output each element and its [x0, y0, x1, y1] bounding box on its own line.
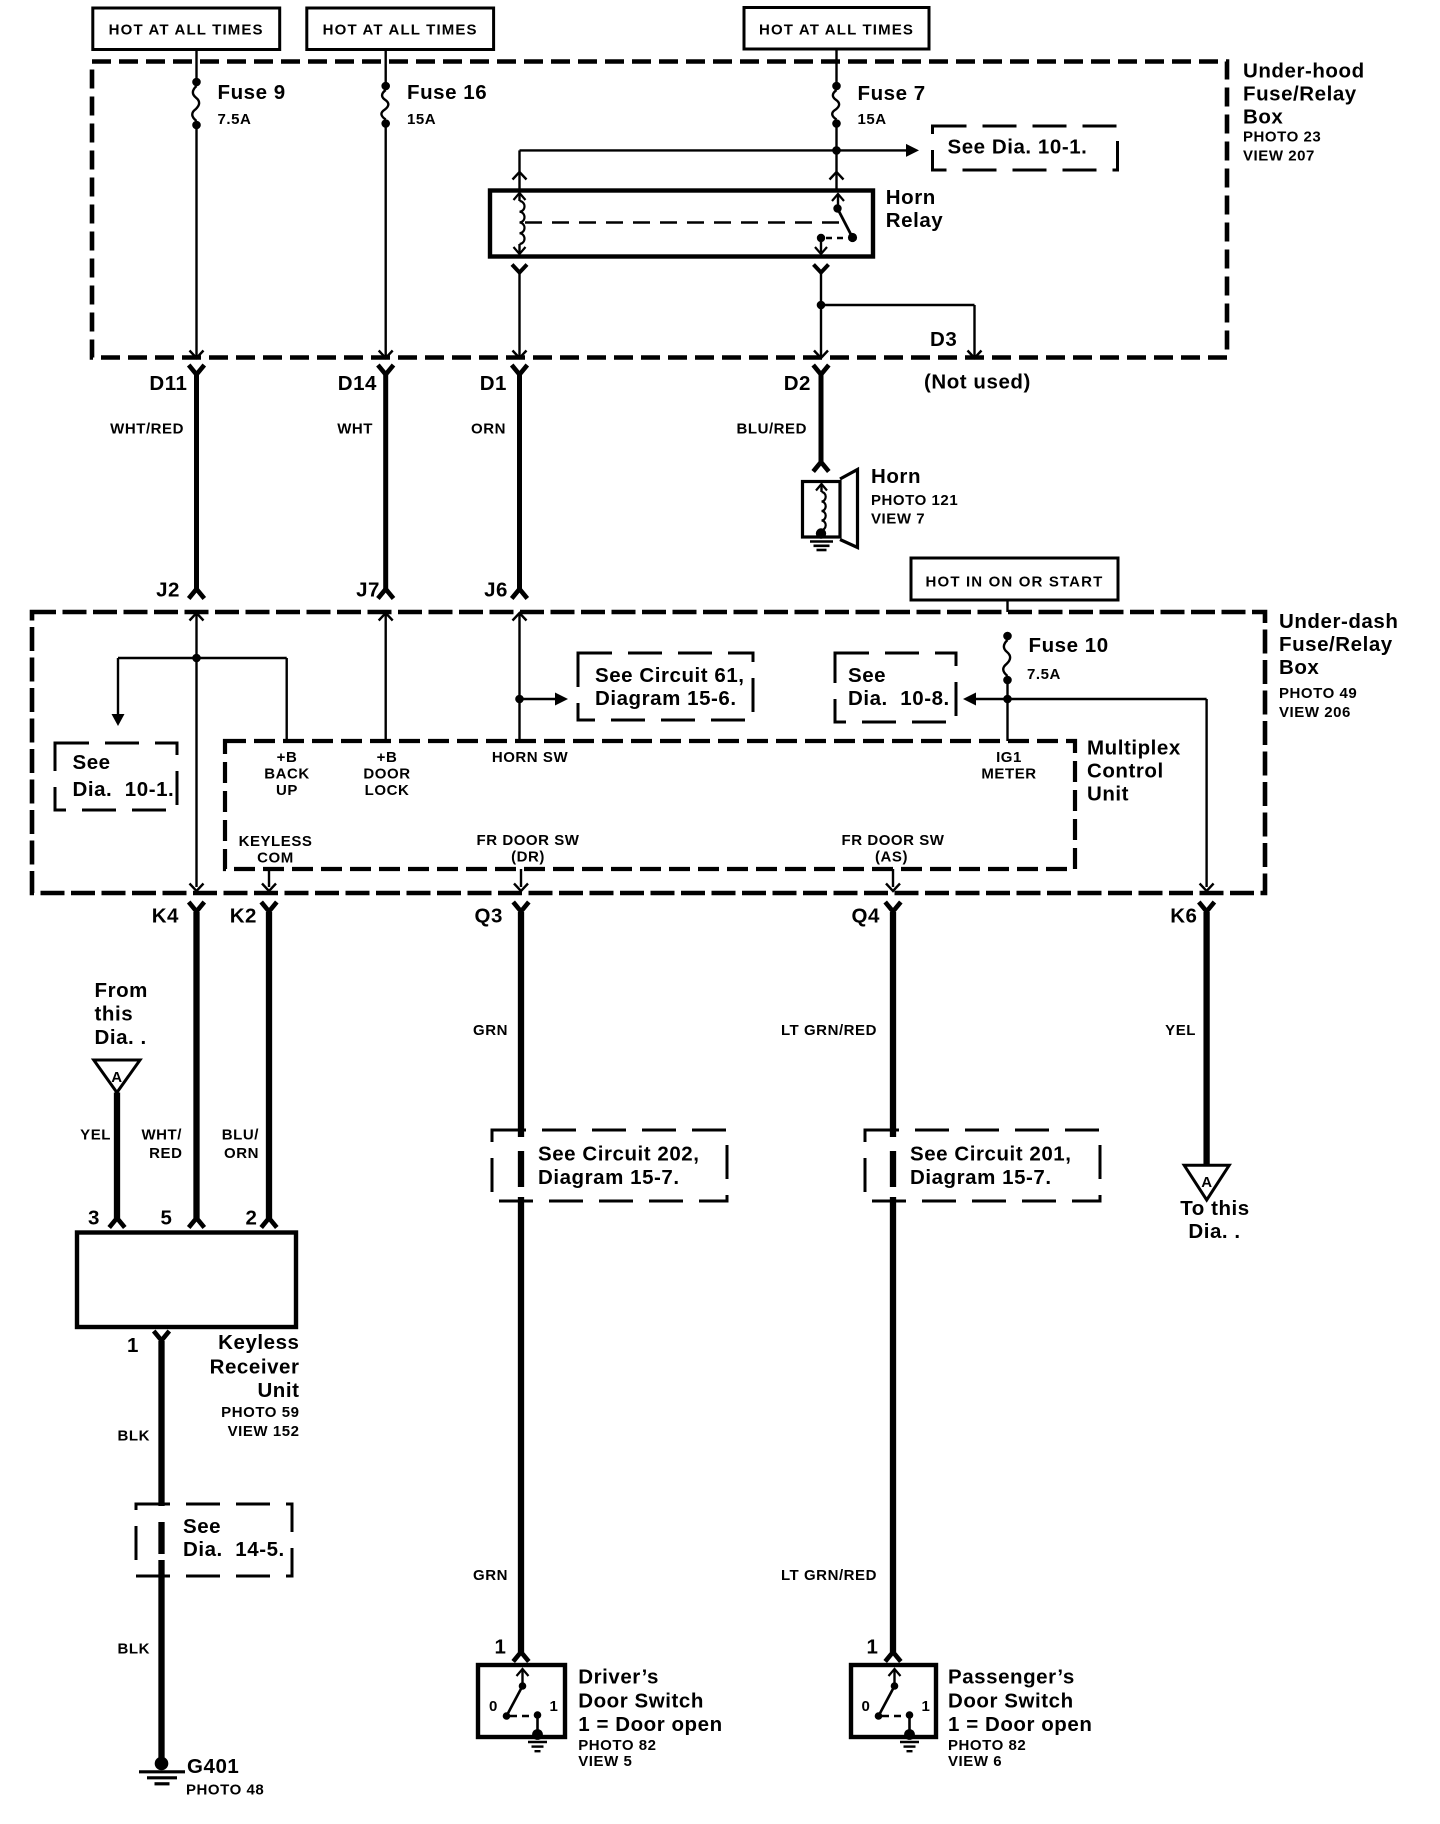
driver door switch box	[478, 1665, 565, 1737]
connector J7	[378, 589, 394, 599]
driver switch ground bars	[528, 1741, 547, 1743]
see reference box: See Circuit 201, Diagram 15-7.	[865, 1130, 1100, 1201]
keyless receiver unit box	[77, 1233, 296, 1328]
svg-text:METER: METER	[981, 766, 1036, 783]
arrow into D14	[379, 351, 393, 359]
horn ground dot	[816, 528, 826, 538]
svg-text:J2: J2	[156, 579, 180, 602]
svg-text:Fuse 16: Fuse 16	[407, 81, 487, 104]
svg-text:HOT AT ALL TIMES: HOT AT ALL TIMES	[109, 22, 264, 39]
driver switch blade dot	[503, 1712, 511, 1720]
wire D1-J6 (ORN)	[517, 372, 522, 590]
svg-text:K2: K2	[230, 905, 257, 928]
arrow Q4 exit	[886, 884, 900, 892]
svg-text:(DR): (DR)	[511, 849, 545, 866]
connector J6	[512, 589, 528, 599]
relay coil arrow bottom	[518, 244, 520, 254]
wire J2 branch horizontal	[118, 657, 287, 659]
svg-text:Fuse/Relay: Fuse/Relay	[1243, 83, 1357, 106]
wire to See Dia. 10-1 (horizontal) and relay coil feed	[520, 149, 907, 151]
fuse F10 element	[1003, 632, 1012, 641]
wire branch to +B BACK UP	[286, 658, 288, 741]
arrow into D2	[814, 351, 828, 359]
svg-text:Dia. 10-1.: Dia. 10-1.	[73, 778, 175, 801]
see reference box: See Circuit 202, Diagram 15-7.	[492, 1130, 727, 1201]
driver switch dashed contact	[510, 1715, 533, 1717]
wire A to keyless pin 3 (YEL)	[114, 1093, 120, 1219]
horn ground bars	[810, 540, 833, 543]
arrow K2 exit	[262, 884, 276, 892]
svg-text:PHOTO 49: PHOTO 49	[1279, 685, 1357, 702]
svg-text:Door Switch: Door Switch	[578, 1690, 704, 1713]
pin stub FR DOOR SW DR to Q3	[520, 869, 522, 887]
fuse F16 element	[381, 82, 390, 91]
relay switch dashed to output	[826, 237, 848, 239]
arrow Q3 exit	[514, 884, 528, 892]
svg-text:D11: D11	[149, 372, 187, 395]
passenger switch pivot dot	[891, 1682, 899, 1690]
connector D11	[189, 365, 205, 375]
connector chevron relay coil top	[513, 172, 527, 180]
wire J2 to K4	[195, 658, 197, 887]
passenger switch dashed contact	[882, 1715, 905, 1717]
relay switch pivot dot	[833, 204, 841, 212]
wire K4 to keyless pin 5 (WHT/RED)	[193, 912, 199, 1218]
driver switch ground dot	[532, 1729, 543, 1740]
svg-text:VIEW 206: VIEW 206	[1279, 704, 1351, 721]
relay switch blade dot	[848, 233, 857, 242]
wire HOT-IN-ON feed to Fuse 10	[1006, 600, 1008, 612]
ground G401 symbol	[155, 1757, 169, 1771]
wire BLK through see box (dash)	[158, 1522, 164, 1554]
svg-text:BLU/: BLU/	[222, 1127, 259, 1144]
connector chevron relay switch top	[830, 172, 844, 180]
wire BLK lower to G401	[158, 1560, 164, 1760]
svg-text:A: A	[1201, 1174, 1212, 1191]
connector chevron below relay coil (D1 feed)	[512, 265, 527, 273]
svg-text:Relay: Relay	[886, 209, 944, 232]
relay internal dashed link	[525, 221, 843, 223]
svg-text:J6: J6	[484, 579, 508, 602]
connector Q4	[885, 902, 901, 912]
wire K2 to keyless pin 2 (BLU/ORN)	[266, 912, 272, 1218]
arrow to See Dia. 10-8	[963, 693, 976, 706]
svg-text:RED: RED	[149, 1145, 182, 1162]
wire D2-horn (BLU/RED)	[819, 372, 824, 462]
connector K4	[189, 902, 205, 912]
passenger switch blade	[879, 1686, 895, 1716]
svg-text:FR DOOR SW: FR DOOR SW	[842, 832, 945, 849]
svg-text:1: 1	[867, 1636, 879, 1659]
svg-text:3: 3	[88, 1207, 100, 1230]
passenger switch blade dot	[875, 1712, 883, 1720]
svg-text:VIEW 207: VIEW 207	[1243, 148, 1315, 165]
arrow to See Dia. 10-1	[906, 144, 919, 157]
see reference box: See Circuit 61, Diagram 15-6.	[578, 653, 753, 720]
wire Q4 through see box (dash)	[890, 1151, 896, 1187]
svg-text:Passenger’s: Passenger’s	[948, 1666, 1075, 1689]
svg-text:5: 5	[161, 1207, 173, 1230]
wire Q4 (LT GRN/RED) upper	[890, 912, 896, 1137]
svg-text:1: 1	[550, 1698, 559, 1715]
svg-text:See: See	[183, 1515, 221, 1538]
svg-text:7.5A: 7.5A	[1027, 666, 1061, 683]
svg-text:See: See	[848, 664, 886, 687]
horn cone	[840, 470, 858, 548]
wire F9 to D11	[195, 125, 197, 356]
passenger switch ground bars	[900, 1741, 919, 1743]
horn body box	[803, 482, 841, 538]
wire K6 (YEL)	[1203, 912, 1209, 1165]
svg-text:D14: D14	[338, 372, 377, 395]
arrow J7 into under-dash	[379, 613, 393, 621]
svg-text:Box: Box	[1279, 656, 1319, 679]
passenger switch contact drop	[908, 1715, 911, 1731]
driver switch arrow	[517, 1669, 529, 1676]
connector J2	[189, 589, 205, 599]
driver switch blade	[507, 1686, 523, 1716]
see reference box: See Dia. 10-1. (left)	[55, 743, 177, 810]
svg-text:Control: Control	[1087, 760, 1164, 783]
svg-text:VIEW 152: VIEW 152	[228, 1423, 300, 1440]
connector K2	[261, 902, 277, 912]
driver switch pivot dot	[519, 1682, 527, 1690]
svg-text:BACK: BACK	[264, 766, 310, 783]
svg-text:See Circuit 201,: See Circuit 201,	[910, 1143, 1072, 1166]
relay switch common arrow	[832, 194, 844, 201]
svg-text:Dia. .: Dia. .	[1188, 1220, 1240, 1243]
svg-text:Q3: Q3	[475, 905, 503, 928]
keyless pin 2 connector	[261, 1218, 277, 1228]
see reference box: See Dia. 10-1.	[933, 126, 1118, 170]
inter-diagram connector A (from)	[94, 1060, 140, 1093]
junction dot J2 branch	[192, 654, 201, 663]
junction dot F10 branch	[1003, 695, 1012, 704]
svg-text:+B: +B	[377, 749, 398, 766]
svg-text:COM: COM	[257, 850, 294, 867]
power tag box HOT AT ALL TIMES (middle)	[307, 8, 494, 50]
svg-text:(AS): (AS)	[875, 849, 908, 866]
arrow to See Dia. 10-1 (left)	[112, 714, 125, 726]
wire branch to See Dia. 10-1 (left)	[117, 658, 119, 714]
svg-text:Q4: Q4	[852, 905, 880, 928]
wire F16 to D14	[385, 124, 387, 357]
multiplex control unit box (dashed)	[225, 741, 1075, 869]
svg-text:ORN: ORN	[224, 1145, 259, 1162]
svg-text:FR DOOR SW: FR DOOR SW	[477, 832, 580, 849]
svg-text:See: See	[73, 751, 111, 774]
driver switch contact drop	[536, 1715, 539, 1731]
svg-text:Horn: Horn	[886, 186, 936, 209]
svg-text:BLK: BLK	[118, 1641, 150, 1658]
arrow into D1	[513, 351, 527, 359]
svg-text:WHT/: WHT/	[141, 1127, 182, 1144]
wire D11-J2 (WHT/RED)	[194, 372, 199, 590]
svg-text:VIEW 7: VIEW 7	[871, 511, 925, 528]
svg-text:Dia. .: Dia. .	[95, 1026, 147, 1049]
wire F7 down to horn relay switch	[835, 124, 837, 190]
relay coil arrow top	[514, 193, 526, 200]
fuse F9 wire upper	[195, 62, 197, 82]
svg-text:UP: UP	[276, 782, 298, 799]
svg-text:YEL: YEL	[80, 1127, 111, 1144]
svg-text:Dia. 10-8.: Dia. 10-8.	[848, 687, 950, 710]
wire: HOT-AT-ALL-TIMES feed to Fuse 16	[385, 49, 387, 62]
svg-text:Multiplex: Multiplex	[1087, 737, 1181, 760]
svg-text:HOT AT ALL TIMES: HOT AT ALL TIMES	[323, 22, 478, 39]
svg-text:BLU/RED: BLU/RED	[736, 421, 807, 438]
svg-text:Box: Box	[1243, 106, 1283, 129]
junction dot HORN SW / circuit 61	[515, 695, 524, 704]
svg-text:(Not used): (Not used)	[924, 371, 1031, 394]
svg-text:1: 1	[127, 1334, 139, 1357]
svg-text:VIEW 5: VIEW 5	[578, 1753, 632, 1770]
svg-text:Receiver: Receiver	[210, 1356, 300, 1379]
fuse F16 wire upper	[385, 62, 387, 86]
svg-text:See Dia. 10-1.: See Dia. 10-1.	[948, 136, 1088, 159]
power tag box HOT IN ON OR START	[911, 558, 1118, 600]
svg-text:D2: D2	[784, 372, 811, 395]
svg-text:Door Switch: Door Switch	[948, 1690, 1074, 1713]
svg-text:HORN SW: HORN SW	[492, 749, 569, 766]
fuse F7 element	[832, 82, 841, 91]
svg-text:Horn: Horn	[871, 465, 921, 488]
svg-text:KEYLESS: KEYLESS	[239, 833, 313, 850]
svg-text:K6: K6	[1170, 905, 1197, 928]
svg-text:LOCK: LOCK	[365, 782, 410, 799]
svg-text:15A: 15A	[407, 111, 436, 128]
connector chevron below relay switch (D2 feed)	[814, 265, 829, 273]
svg-text:PHOTO 121: PHOTO 121	[871, 492, 958, 509]
passenger switch contact dot	[906, 1711, 914, 1719]
relay coil element	[520, 201, 525, 244]
svg-text:Under-dash: Under-dash	[1279, 610, 1398, 633]
relay box (Horn Relay)	[490, 191, 873, 257]
svg-text:BLK: BLK	[118, 1428, 150, 1445]
svg-text:Dia. 14-5.: Dia. 14-5.	[183, 1538, 285, 1561]
passenger door switch box	[851, 1665, 936, 1737]
svg-text:this: this	[95, 1003, 134, 1026]
svg-text:+B: +B	[277, 749, 298, 766]
svg-text:LT GRN/RED: LT GRN/RED	[781, 1567, 877, 1584]
passenger door switch pin 1 connector	[885, 1652, 901, 1662]
svg-text:PHOTO 82: PHOTO 82	[578, 1737, 656, 1754]
svg-text:HOT IN ON OR START: HOT IN ON OR START	[926, 574, 1104, 591]
junction dot F7 / see-dia feed	[832, 146, 841, 155]
svg-text:Keyless: Keyless	[218, 1331, 299, 1354]
horn coil	[822, 492, 826, 530]
svg-text:7.5A: 7.5A	[218, 111, 252, 128]
wire keyless pin1 (BLK) upper	[158, 1341, 164, 1506]
wire relay coil to D1	[518, 273, 520, 357]
svg-text:To this: To this	[1180, 1197, 1250, 1220]
relay switch output dot	[817, 234, 825, 242]
svg-text:PHOTO 82: PHOTO 82	[948, 1737, 1026, 1754]
svg-text:LT GRN/RED: LT GRN/RED	[781, 1022, 877, 1039]
wire Q4 (LT GRN/RED) lower	[890, 1197, 896, 1652]
passenger switch ground dot	[904, 1729, 915, 1740]
inter-diagram connector A (to)	[1184, 1165, 1229, 1200]
svg-text:D3: D3	[930, 328, 957, 351]
svg-text:K4: K4	[152, 905, 179, 928]
connector D1	[512, 365, 528, 375]
fuse F9 element	[192, 78, 201, 87]
svg-text:From: From	[95, 979, 148, 1002]
svg-text:PHOTO 23: PHOTO 23	[1243, 129, 1321, 146]
svg-text:Under-hood: Under-hood	[1243, 60, 1365, 83]
svg-text:Unit: Unit	[257, 1379, 299, 1402]
wire D14-J7 (WHT)	[383, 372, 388, 590]
connector K6	[1199, 902, 1215, 912]
svg-text:Fuse 9: Fuse 9	[218, 81, 286, 104]
svg-text:See Circuit 61,: See Circuit 61,	[595, 664, 745, 687]
see reference box: See Dia. 14-5.	[136, 1504, 292, 1576]
arrow to See Circuit 61	[555, 693, 568, 706]
svg-text:HOT AT ALL TIMES: HOT AT ALL TIMES	[759, 22, 914, 39]
svg-text:15A: 15A	[858, 111, 887, 128]
svg-text:YEL: YEL	[1165, 1022, 1196, 1039]
driver door switch pin 1 connector	[513, 1652, 529, 1662]
arrow into D3	[968, 351, 982, 359]
svg-text:G401: G401	[187, 1755, 239, 1778]
wire: HOT-AT-ALL-TIMES feed to Fuse 7	[835, 49, 837, 62]
wire to See Circuit 61	[520, 698, 557, 700]
power tag box HOT AT ALL TIMES (left)	[93, 8, 280, 50]
connector Q3	[513, 902, 529, 912]
relay switch output arrow	[820, 238, 822, 252]
svg-text:See Circuit 202,: See Circuit 202,	[538, 1143, 700, 1166]
svg-text:IG1: IG1	[996, 749, 1022, 766]
under-hood fuse/relay box (dashed)	[92, 62, 1227, 358]
pin stub FR DOOR SW AS to Q4	[892, 869, 894, 887]
svg-text:1 = Door open: 1 = Door open	[578, 1713, 722, 1736]
svg-text:DOOR: DOOR	[363, 766, 410, 783]
arrow K6 exit	[1200, 884, 1214, 892]
svg-text:0: 0	[862, 1698, 871, 1715]
passenger switch arrow	[889, 1669, 901, 1676]
svg-text:1 = Door open: 1 = Door open	[948, 1713, 1092, 1736]
connector D2	[813, 365, 829, 375]
horn coil arrow	[816, 484, 827, 491]
keyless pin 5 connector	[189, 1218, 205, 1228]
svg-text:VIEW 6: VIEW 6	[948, 1753, 1002, 1770]
svg-text:WHT: WHT	[337, 421, 373, 438]
svg-text:Unit: Unit	[1087, 783, 1129, 806]
svg-text:Diagram 15-7.: Diagram 15-7.	[538, 1166, 680, 1189]
svg-text:1: 1	[495, 1636, 507, 1659]
keyless pin 1 connector	[154, 1331, 170, 1341]
connector D14	[378, 365, 394, 375]
svg-text:Driver’s: Driver’s	[578, 1666, 659, 1689]
svg-text:D1: D1	[480, 372, 507, 395]
driver switch contact dot	[534, 1711, 542, 1719]
arrow into D11	[190, 351, 204, 359]
svg-text:PHOTO 59: PHOTO 59	[221, 1404, 299, 1421]
svg-text:WHT/RED: WHT/RED	[110, 421, 184, 438]
arrow K4 exit	[190, 884, 204, 892]
arrow J2 into under-dash	[190, 613, 204, 621]
relay switch blade	[838, 209, 853, 238]
svg-text:GRN: GRN	[473, 1022, 508, 1039]
see reference box: See Dia. 10-8.	[835, 653, 956, 722]
svg-text:Diagram 15-6.: Diagram 15-6.	[595, 687, 737, 710]
fuse F7 wire upper	[835, 62, 837, 86]
wire Q3 (GRN) lower	[518, 1197, 524, 1652]
svg-text:PHOTO 48: PHOTO 48	[186, 1782, 264, 1799]
wire Q3 through see box (dash)	[518, 1151, 524, 1187]
wire Q3 (GRN) upper	[518, 912, 524, 1137]
svg-text:Fuse 10: Fuse 10	[1029, 634, 1109, 657]
power tag box HOT AT ALL TIMES (right)	[744, 8, 929, 50]
connector into horn	[813, 462, 829, 472]
svg-text:Fuse 7: Fuse 7	[858, 82, 926, 105]
junction dot D2/D3 branch	[817, 301, 826, 310]
svg-text:Fuse/Relay: Fuse/Relay	[1279, 633, 1393, 656]
svg-text:2: 2	[246, 1207, 258, 1230]
svg-text:ORN: ORN	[471, 421, 506, 438]
keyless pin 3 connector	[109, 1218, 125, 1228]
wire D3 branch	[821, 304, 975, 306]
svg-text:J7: J7	[356, 579, 380, 602]
under-dash fuse/relay box (dashed)	[32, 612, 1265, 893]
svg-text:A: A	[111, 1069, 122, 1086]
svg-text:GRN: GRN	[473, 1567, 508, 1584]
wire F10 to IG1 METER	[1006, 680, 1008, 741]
wire relay switch to D2 junction	[820, 273, 822, 357]
wire: HOT-AT-ALL-TIMES feed to Fuse 9	[195, 49, 197, 62]
wire F10 branch to See Dia 10-8 and K6	[975, 698, 1207, 700]
pin stub KEYLESS COM to K2	[268, 869, 270, 887]
svg-text:0: 0	[489, 1698, 498, 1715]
svg-text:Diagram 15-7.: Diagram 15-7.	[910, 1166, 1052, 1189]
arrow J6 into under-dash	[513, 613, 527, 621]
svg-text:1: 1	[922, 1698, 931, 1715]
